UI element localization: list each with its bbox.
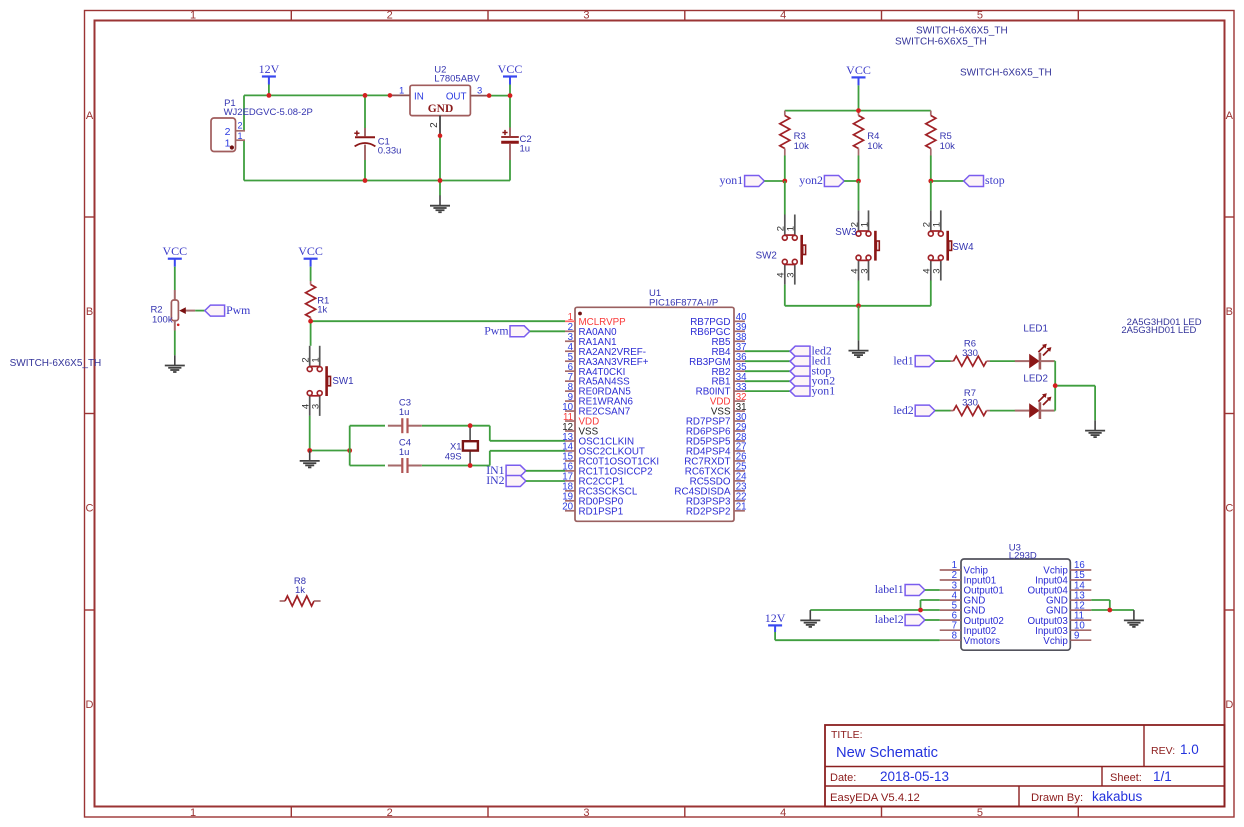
svg-text:SW1: SW1: [332, 376, 353, 387]
svg-text:1: 1: [399, 85, 404, 96]
svg-text:yon1: yon1: [720, 173, 744, 187]
svg-text:EasyEDA V5.4.12: EasyEDA V5.4.12: [830, 792, 920, 804]
svg-text:REV:: REV:: [1151, 745, 1175, 757]
svg-text:D: D: [1225, 699, 1233, 711]
svg-text:PIC16F877A-I/P: PIC16F877A-I/P: [649, 297, 718, 308]
svg-text:SW2: SW2: [756, 251, 777, 262]
svg-text:L7805ABV: L7805ABV: [434, 74, 480, 85]
svg-text:10k: 10k: [794, 141, 810, 152]
svg-text:3: 3: [786, 273, 797, 278]
svg-text:1: 1: [859, 222, 870, 227]
svg-text:330: 330: [962, 348, 978, 359]
svg-text:2: 2: [225, 126, 231, 138]
svg-text:2A5G3HD01 LED: 2A5G3HD01 LED: [1121, 325, 1196, 336]
svg-text:10k: 10k: [940, 141, 956, 152]
svg-text:yon2: yon2: [799, 173, 823, 187]
svg-text:VCC: VCC: [162, 244, 187, 258]
svg-text:10k: 10k: [867, 141, 883, 152]
svg-text:0.33u: 0.33u: [378, 145, 402, 156]
svg-text:SWITCH-6X6X5_TH: SWITCH-6X6X5_TH: [960, 68, 1052, 79]
svg-text:3: 3: [311, 404, 322, 409]
svg-text:1: 1: [190, 10, 196, 22]
svg-text:yon1: yon1: [812, 383, 836, 397]
svg-text:1u: 1u: [399, 407, 410, 418]
svg-text:LED1: LED1: [1023, 324, 1048, 335]
svg-text:2: 2: [387, 10, 393, 22]
svg-text:1: 1: [238, 131, 243, 141]
svg-text:SWITCH-6X6X5_TH: SWITCH-6X6X5_TH: [916, 26, 1008, 37]
svg-text:3: 3: [932, 268, 943, 273]
svg-text:1k: 1k: [317, 304, 327, 315]
svg-text:OUT: OUT: [446, 91, 467, 102]
svg-text:12V: 12V: [259, 62, 280, 76]
svg-text:1: 1: [225, 138, 231, 150]
svg-text:VCC: VCC: [298, 244, 323, 258]
svg-text:A: A: [86, 110, 94, 122]
svg-text:SWITCH-6X6X5_TH: SWITCH-6X6X5_TH: [10, 358, 102, 369]
svg-text:Drawn By:: Drawn By:: [1031, 792, 1083, 804]
svg-text:VCC: VCC: [498, 62, 523, 76]
svg-text:RD2PSP2: RD2PSP2: [686, 506, 731, 517]
svg-text:1: 1: [932, 222, 943, 227]
svg-text:1.0: 1.0: [1180, 742, 1199, 757]
svg-text:8: 8: [952, 630, 957, 641]
svg-text:C: C: [86, 503, 94, 515]
svg-text:1u: 1u: [399, 447, 410, 458]
svg-text:1: 1: [311, 357, 322, 362]
svg-text:2: 2: [238, 121, 243, 131]
svg-text:L293D: L293D: [1009, 550, 1037, 561]
svg-text:VCC: VCC: [846, 63, 871, 77]
svg-text:GND: GND: [428, 103, 454, 115]
svg-text:led2: led2: [893, 403, 913, 417]
svg-text:100k: 100k: [152, 315, 173, 326]
svg-text:1k: 1k: [295, 585, 305, 596]
svg-text:Vmotors: Vmotors: [964, 636, 1001, 647]
svg-text:New Schematic: New Schematic: [836, 745, 938, 761]
svg-text:20: 20: [562, 502, 573, 513]
svg-text:1: 1: [190, 807, 196, 819]
svg-text:1: 1: [786, 226, 797, 231]
svg-text:SWITCH-6X6X5_TH: SWITCH-6X6X5_TH: [895, 37, 987, 48]
svg-text:4: 4: [780, 10, 786, 22]
svg-text:330: 330: [962, 397, 978, 408]
svg-text:49S: 49S: [445, 452, 462, 463]
svg-text:B: B: [86, 306, 93, 318]
svg-text:LED2: LED2: [1023, 374, 1048, 385]
svg-text:Sheet:: Sheet:: [1110, 772, 1142, 784]
svg-text:C: C: [1225, 503, 1233, 515]
svg-text:B: B: [1226, 306, 1233, 318]
svg-text:RD1PSP1: RD1PSP1: [579, 506, 624, 517]
svg-text:12V: 12V: [765, 611, 786, 625]
svg-text:Pwm: Pwm: [226, 303, 250, 317]
svg-text:WJ2EDGVC-5.08-2P: WJ2EDGVC-5.08-2P: [224, 107, 313, 118]
svg-text:2018-05-13: 2018-05-13: [880, 769, 949, 784]
svg-text:TITLE:: TITLE:: [831, 729, 863, 741]
svg-text:Pwm: Pwm: [484, 324, 508, 338]
svg-text:3: 3: [859, 268, 870, 273]
svg-text:A: A: [1226, 110, 1234, 122]
svg-text:D: D: [86, 699, 94, 711]
svg-text:4: 4: [780, 807, 786, 819]
svg-text:5: 5: [977, 807, 983, 819]
svg-text:1u: 1u: [520, 144, 531, 155]
svg-text:IN2: IN2: [486, 473, 504, 487]
svg-text:Vchip: Vchip: [1043, 636, 1068, 647]
svg-text:kakabus: kakabus: [1092, 789, 1143, 804]
svg-text:9: 9: [1074, 630, 1079, 641]
svg-text:2: 2: [387, 807, 393, 819]
svg-text:3: 3: [477, 85, 482, 96]
svg-text:1/1: 1/1: [1153, 769, 1172, 784]
svg-text:3: 3: [583, 10, 589, 22]
svg-text:stop: stop: [985, 173, 1005, 187]
svg-text:21: 21: [736, 502, 747, 513]
svg-text:SW3: SW3: [835, 227, 857, 238]
svg-text:3: 3: [583, 807, 589, 819]
svg-text:IN: IN: [414, 91, 424, 102]
svg-text:label2: label2: [875, 612, 904, 626]
svg-text:2: 2: [429, 122, 440, 128]
svg-text:led1: led1: [893, 353, 913, 367]
svg-text:5: 5: [977, 10, 983, 22]
svg-text:Date:: Date:: [830, 772, 856, 784]
svg-text:SW4: SW4: [952, 242, 974, 253]
svg-text:label1: label1: [875, 582, 904, 596]
